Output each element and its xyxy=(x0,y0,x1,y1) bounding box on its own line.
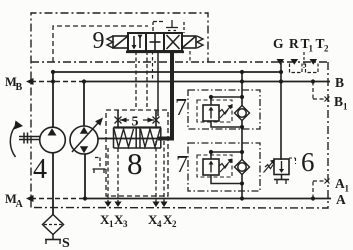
channel brackets under ports xyxy=(290,64,319,73)
svg-text:4: 4 xyxy=(33,154,47,185)
pump 4 first stage outlet triangle xyxy=(48,128,57,135)
rail line A (bottom), dashed at MA end xyxy=(31,198,86,200)
pressure line from valve 9 (thick) xyxy=(170,50,174,139)
svg-text:7: 7 xyxy=(175,95,187,121)
shock valve block 7 lower : chain enclosure xyxy=(188,143,260,191)
port triangles X1 X3 X4 X2 xyxy=(104,202,167,208)
relief valve upper 7 xyxy=(210,97,212,105)
svg-text:S: S xyxy=(62,236,70,250)
svg-text:R: R xyxy=(289,36,299,51)
svg-text:1: 1 xyxy=(343,102,348,112)
svg-text:B: B xyxy=(334,94,343,109)
pump 4 drive shaft xyxy=(19,133,40,144)
T1 dashed passage xyxy=(303,52,305,68)
pump 4 first stage circle xyxy=(40,127,66,153)
directional valve 9 : body xyxy=(126,33,184,52)
G port line down to relief valve 6 xyxy=(280,63,282,160)
valve 9 right cell crossed arrows xyxy=(167,35,180,49)
pump outlet line through spring block xyxy=(98,138,160,140)
pilot line from valve 9 (dashed) to control block 8 xyxy=(135,51,137,110)
rail line B (to port B), dashed at MB end xyxy=(31,81,84,83)
port A1 dashed branch xyxy=(313,181,325,199)
svg-text:1: 1 xyxy=(309,44,314,54)
pilot line X1 xyxy=(107,148,109,207)
check valve upper 7 xyxy=(235,106,250,121)
valve 6 vent dashes xyxy=(289,158,296,164)
svg-text:7: 7 xyxy=(176,152,188,178)
vertical line through shock valves (B rail to A rail) xyxy=(241,72,243,199)
svg-text:B: B xyxy=(16,82,23,93)
pump 4 second stage triangles xyxy=(80,127,88,134)
pressure line corner to pump outlet line xyxy=(158,137,174,141)
suction filter diamond xyxy=(43,215,64,235)
control springs assembly of block 8 xyxy=(114,128,162,149)
pilot line X3 xyxy=(117,148,119,207)
pump2 case drain with tank symbol xyxy=(93,158,106,174)
pump 4 second stage circle (variable) xyxy=(70,126,98,154)
drain pilot dashes below valve 9 xyxy=(152,51,154,82)
control block 8 dashed enclosure xyxy=(106,110,168,196)
svg-text:A: A xyxy=(16,199,24,210)
enclosure boundary (chain line block outline) xyxy=(31,13,328,208)
dashed enclosure right edge remnant xyxy=(189,51,191,62)
directional valve 9 : left spring xyxy=(107,36,113,48)
suction line down from pump1 xyxy=(52,152,54,215)
internal node line lower 7 xyxy=(211,151,242,153)
inner dashed box lower 7 xyxy=(197,155,232,177)
svg-text:9: 9 xyxy=(93,28,105,54)
variable displacement arrow through pump 2nd stage xyxy=(72,123,98,152)
svg-text:6: 6 xyxy=(301,147,315,177)
svg-text:2: 2 xyxy=(324,44,329,54)
stroke limiter label 5 with arrows and cross marks xyxy=(115,117,160,124)
rail line P (upper horizontal) xyxy=(53,71,281,73)
valve 6 drain tank symbol xyxy=(281,175,283,180)
labels X1 X3 X4 X2 xyxy=(100,212,177,229)
shock valve block 7 upper : chain enclosure xyxy=(188,90,260,129)
valve 9 left cell arrows xyxy=(134,36,140,48)
valve 9 center cell blocked symbols xyxy=(150,34,161,50)
pump1 pressure line up to rails xyxy=(52,72,54,128)
rotation arrow at shaft xyxy=(10,127,15,158)
svg-text:2: 2 xyxy=(172,219,177,229)
pilot plug symbol above valve 9 xyxy=(153,20,184,33)
svg-text:4: 4 xyxy=(157,219,162,229)
labels B B1 A1 A xyxy=(334,75,350,207)
pilot line X4 xyxy=(155,141,157,207)
pump2 line up to rail B xyxy=(83,82,85,127)
internal node line upper 7 xyxy=(211,96,242,98)
measuring lines X3 X4 upper sections xyxy=(118,110,156,127)
svg-text:3: 3 xyxy=(123,219,128,229)
directional valve 9 : left solenoid xyxy=(113,36,128,48)
svg-text:G: G xyxy=(273,36,284,51)
labels G R T1 T2 xyxy=(273,36,329,54)
port B1 dashed branch xyxy=(313,82,325,100)
relief valve lower 7 xyxy=(210,152,212,159)
svg-text:B: B xyxy=(335,75,344,90)
relief valve 6 xyxy=(274,159,289,175)
labels MB MA xyxy=(5,75,24,210)
tank line from valve 9 into block 8 xyxy=(157,51,159,116)
check valve lower 7 xyxy=(235,160,250,175)
svg-text:A: A xyxy=(335,176,345,191)
pilot line X2 xyxy=(163,141,165,207)
tank symbol at S xyxy=(52,235,54,240)
port MB marker xyxy=(26,78,34,85)
directional valve 9 : right solenoid xyxy=(182,36,196,48)
pump2 line down to rail A xyxy=(84,154,86,199)
ports G R T1 T2 triangles on top surface xyxy=(277,59,318,65)
inner dashed box upper 7 xyxy=(197,100,232,122)
port MA marker xyxy=(26,195,34,202)
dashed enclosure around valve 9 xyxy=(53,26,148,62)
svg-text:A: A xyxy=(336,192,346,207)
pilot line from valve 9 (dashed) to control block 8 xyxy=(146,51,148,110)
svg-text:8: 8 xyxy=(127,146,143,181)
directional valve 9 : right spring xyxy=(197,36,203,48)
